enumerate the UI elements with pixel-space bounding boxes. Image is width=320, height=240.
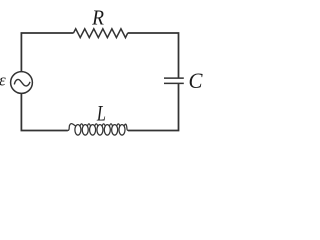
wire left-top segment (20, 33, 22, 71)
svg-text:ε: ε (0, 71, 6, 90)
inductor loop 7 (119, 125, 125, 136)
inductor entry arc (68, 124, 76, 131)
inductor hump 4 (102, 124, 105, 126)
inductor exit arc (124, 124, 129, 130)
capacitor C top plate (164, 77, 184, 79)
inductor loop 5 (104, 125, 110, 136)
inductor hump 3 (95, 124, 98, 126)
wire bottom-left segment (21, 94, 67, 131)
inductor loop 4 (97, 125, 103, 136)
svg-text:C: C (189, 69, 204, 93)
AC source circle (11, 72, 33, 94)
inductor hump 5 (109, 124, 112, 126)
inductor hump 6 (117, 124, 120, 126)
inductor loop 3 (90, 125, 96, 136)
svg-text:L: L (96, 101, 106, 126)
inductor loop 2 (82, 125, 88, 136)
inductor hump 2 (87, 124, 90, 126)
wire top-left segment (21, 32, 73, 35)
wire top-right segment (128, 33, 179, 77)
svg-text:R: R (91, 7, 104, 30)
resistor R zigzag (73, 29, 127, 38)
inductor hump 1 (80, 124, 83, 126)
wire right-bottom segment (128, 84, 179, 131)
inductor loop 1 (75, 125, 81, 136)
AC source sine wave (14, 79, 30, 86)
inductor loop 6 (112, 125, 118, 136)
capacitor C bottom plate (164, 82, 184, 84)
